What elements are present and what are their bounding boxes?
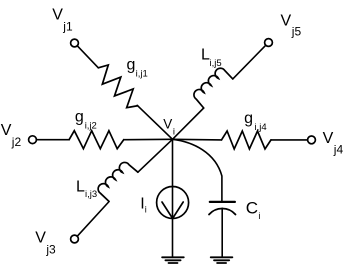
node Vj1 terminal bbox=[71, 39, 79, 47]
label g_i,j2 bbox=[75, 108, 97, 131]
svg-text:V: V bbox=[52, 7, 63, 24]
wire resistor g_i,j1 to center node bbox=[137, 105, 172, 139]
svg-text:L: L bbox=[76, 179, 85, 196]
wire center node to current source and ground bbox=[172, 139, 174, 257]
label g_i,j4 bbox=[244, 110, 267, 133]
svg-text:i: i bbox=[145, 205, 147, 215]
svg-text:V: V bbox=[1, 122, 12, 139]
wire resistor g_i,j4 to Vj4 terminal bbox=[271, 139, 308, 141]
label L_i,j3 bbox=[76, 179, 97, 201]
svg-text:i,j4: i,j4 bbox=[255, 122, 267, 133]
svg-text:j4: j4 bbox=[333, 143, 344, 157]
label L_i,j5 bbox=[201, 46, 222, 69]
wire inductor L_i,j5 to center node bbox=[173, 108, 204, 139]
svg-text:j2: j2 bbox=[11, 135, 22, 149]
svg-text:g: g bbox=[244, 110, 253, 127]
label Vj1 bbox=[52, 7, 73, 34]
resistor g_i,j4 bbox=[222, 131, 272, 149]
wire center node to resistor g_i,j4 bbox=[173, 138, 222, 141]
svg-text:i,j5: i,j5 bbox=[210, 58, 222, 69]
svg-text:g: g bbox=[75, 108, 84, 125]
current source arrow bbox=[162, 202, 183, 218]
wire Vj5 terminal to inductor L_i,j5 bbox=[233, 45, 266, 79]
svg-text:j3: j3 bbox=[45, 242, 56, 256]
ground symbol (current source) bbox=[162, 257, 184, 263]
label Vj2 bbox=[1, 122, 22, 149]
wire center node to capacitor (curved) bbox=[173, 139, 222, 201]
inductor L_i,j3 bbox=[96, 160, 138, 202]
resistor g_i,j2 bbox=[69, 131, 124, 149]
node Vj3 terminal bbox=[71, 235, 79, 243]
ground symbol (capacitor) bbox=[211, 257, 233, 263]
node Vj5 terminal bbox=[265, 39, 273, 47]
svg-text:i,j2: i,j2 bbox=[85, 121, 97, 132]
current source I_i circle bbox=[157, 187, 189, 219]
svg-text:V: V bbox=[323, 130, 334, 147]
label Vj3 bbox=[35, 230, 56, 257]
svg-text:V: V bbox=[35, 230, 46, 247]
label C_i bbox=[246, 199, 261, 221]
svg-text:C: C bbox=[246, 199, 258, 218]
wire Vj2 terminal to resistor g_i,j2 bbox=[36, 139, 69, 141]
resistor g_i,j1 bbox=[92, 61, 144, 112]
svg-text:i,j1: i,j1 bbox=[136, 69, 148, 80]
node Vj4 terminal bbox=[308, 136, 316, 144]
svg-text:i,j3: i,j3 bbox=[85, 189, 97, 200]
svg-text:g: g bbox=[127, 56, 136, 73]
svg-text:i: i bbox=[173, 126, 175, 137]
label Vj5 bbox=[281, 12, 302, 38]
label I_i bbox=[140, 195, 146, 214]
label Vi (center node) bbox=[163, 116, 175, 137]
svg-text:j5: j5 bbox=[291, 24, 302, 38]
wire center node to inductor L_i,j3 bbox=[138, 139, 173, 172]
svg-text:V: V bbox=[281, 12, 292, 29]
capacitor C_i top plate bbox=[210, 201, 235, 203]
wire Vj1 terminal to resistor g_i,j1 bbox=[77, 46, 98, 68]
capacitor C_i bottom plate (curved) bbox=[209, 208, 236, 214]
wire resistor g_i,j2 to center node bbox=[124, 138, 173, 140]
node Vj2 terminal bbox=[29, 136, 37, 144]
wire inductor L_i,j3 to Vj3 terminal bbox=[77, 202, 109, 237]
svg-text:V: V bbox=[163, 116, 172, 131]
label Vj4 bbox=[323, 130, 344, 157]
wire capacitor to ground bbox=[221, 208, 223, 257]
svg-text:j1: j1 bbox=[62, 19, 73, 33]
label g_i,j1 bbox=[127, 56, 148, 79]
svg-text:i: i bbox=[258, 211, 260, 221]
inductor L_i,j5 bbox=[191, 66, 233, 108]
